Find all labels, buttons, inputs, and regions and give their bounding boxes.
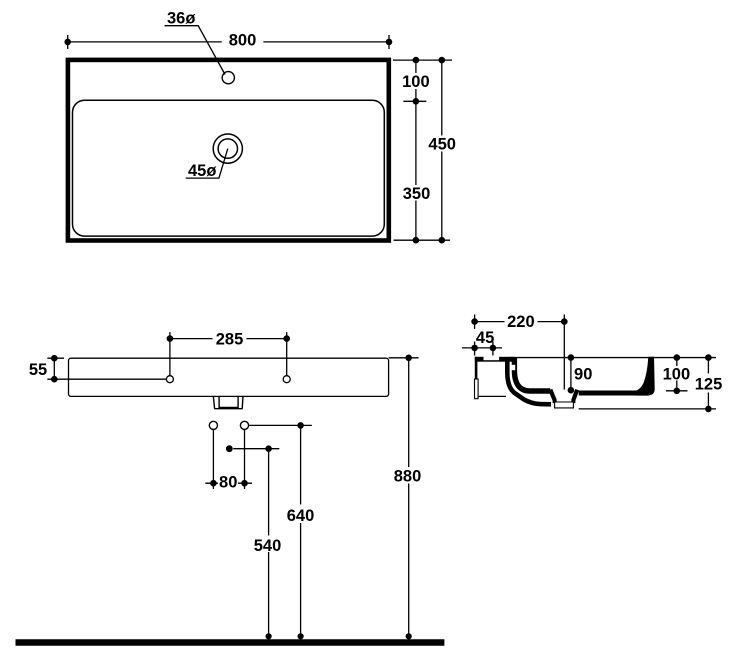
svg-text:55: 55 [29,361,47,379]
supply holes front [209,421,217,429]
svg-text:100: 100 [663,366,691,384]
svg-text:45ø: 45ø [188,162,216,180]
line to dim 540 [233,448,279,450]
side view drain white notch [550,395,553,400]
dim 800 end dots [64,39,392,46]
dim 640 vertical [300,425,302,639]
drain circles top view [213,134,242,163]
dim 100/350 vertical line [415,60,417,240]
svg-text:450: 450 [428,136,456,154]
side view bracket [475,356,515,398]
label 36ø leader [165,26,226,75]
dim 125 side [707,358,709,409]
right dim dots [413,57,446,244]
side view rim line and right extension [510,357,716,359]
svg-text:800: 800 [229,32,257,50]
dim 220 [475,315,565,330]
mounting hole circles front [166,376,173,383]
top view outer rect (basin plan) [68,60,389,241]
side view bottom right thick line [579,391,636,396]
side bottom extension line [579,408,716,410]
line to dim 640 [249,424,312,426]
floor dots [266,633,412,639]
dim 80 [205,430,252,489]
svg-text:36ø: 36ø [167,9,195,27]
svg-text:285: 285 [216,331,244,349]
faucet hole circle [222,72,234,84]
dim 100 side [666,358,688,391]
side view left bowl outer wall stroke [507,358,551,404]
top view inner basin rounded rect [73,100,385,236]
side view overflow white dash [511,365,515,370]
drain spigot front [213,397,243,409]
dim 45 [462,342,502,356]
side view right wall [636,357,655,396]
svg-text:540: 540 [254,537,282,555]
svg-text:90: 90 [574,366,592,384]
svg-text:125: 125 [695,376,723,394]
front view rect [69,358,389,396]
top view right extension lines [393,60,452,240]
dim 285 [170,332,287,376]
floor line [16,639,445,646]
svg-text:220: 220 [507,313,535,331]
svg-text:350: 350 [403,185,431,203]
drain center dot front [226,445,233,452]
dim 880 vertical [389,358,419,640]
svg-text:640: 640 [287,507,315,525]
svg-text:80: 80 [219,474,237,492]
dim 540 vertical [268,449,270,640]
side view left bowl wall inner stroke [514,358,550,391]
label 45ø leader [186,149,228,179]
dim 220 extension to drain [563,322,565,390]
dim 450 vertical line [441,60,443,240]
dim 90 [570,358,572,391]
dim 55 [47,358,166,379]
dim 800 line [68,35,389,49]
svg-text:45: 45 [476,329,494,347]
svg-text:880: 880 [394,468,422,486]
side view drain cup [550,390,577,408]
svg-text:100: 100 [402,73,430,91]
